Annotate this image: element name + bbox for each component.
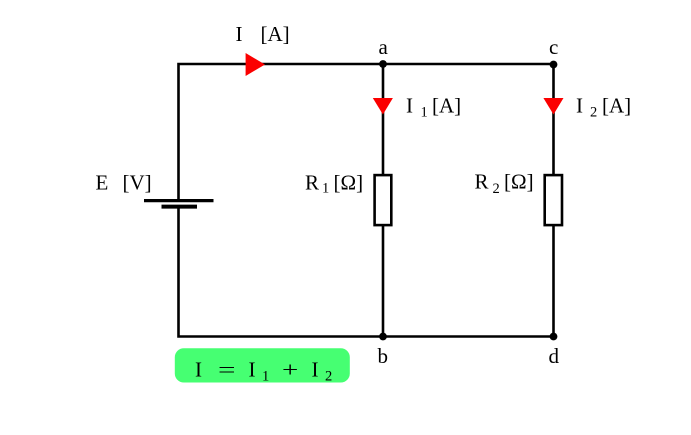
svg-text:=: = <box>218 358 236 382</box>
svg-text:+: + <box>282 358 298 382</box>
svg-text:[A]: [A] <box>432 94 461 118</box>
svg-text:1: 1 <box>262 369 269 385</box>
svg-text:1: 1 <box>322 181 329 197</box>
highlight box for formula <box>175 348 350 382</box>
battery E: short negative plate <box>162 205 198 209</box>
svg-text:R: R <box>305 171 319 195</box>
svg-text:I: I <box>576 94 583 118</box>
svg-text:I: I <box>195 358 202 382</box>
svg-text:2: 2 <box>325 369 332 385</box>
svg-text:I: I <box>236 22 243 46</box>
wire: branch 2 vertical lower (R2 to node d) <box>552 225 555 337</box>
wire: branch 2 vertical upper (node c to R2) <box>552 64 555 175</box>
node b junction dot <box>379 333 387 341</box>
resistor R1 body <box>375 175 392 225</box>
svg-text:I: I <box>249 358 256 382</box>
svg-text:[A]: [A] <box>602 94 631 118</box>
svg-text:1: 1 <box>421 105 428 121</box>
wire: branch 1 vertical lower (R1 to node b) <box>382 225 385 337</box>
svg-text:2: 2 <box>493 181 500 197</box>
current arrow I (red, pointing right) <box>246 53 265 76</box>
svg-text:a: a <box>379 35 389 59</box>
svg-text:[A]: [A] <box>261 22 290 46</box>
wire: left vertical from battery bottom plate + bottom horizontal <box>179 207 554 337</box>
resistor R2 body <box>545 175 562 225</box>
svg-text:E: E <box>96 171 109 195</box>
svg-text:d: d <box>549 344 560 368</box>
node d junction dot <box>550 333 558 341</box>
svg-text:I: I <box>312 358 319 382</box>
node c junction dot <box>550 61 558 69</box>
svg-text:[Ω]: [Ω] <box>334 171 364 195</box>
svg-text:b: b <box>378 344 389 368</box>
current arrow I1 (red, pointing down) <box>373 98 393 115</box>
svg-text:c: c <box>549 35 558 59</box>
node a junction dot <box>379 60 387 68</box>
battery E: long positive plate <box>144 199 214 202</box>
svg-text:I: I <box>406 94 413 118</box>
svg-text:R: R <box>475 170 489 194</box>
current arrow I2 (red, pointing down) <box>543 98 563 115</box>
svg-text:[V]: [V] <box>123 171 152 195</box>
svg-text:[Ω]: [Ω] <box>504 170 534 194</box>
wire: branch 1 vertical upper (node a to R1) <box>382 64 385 175</box>
svg-text:2: 2 <box>590 105 597 121</box>
wire: top horizontal + left vertical down to battery top plate <box>179 64 554 199</box>
